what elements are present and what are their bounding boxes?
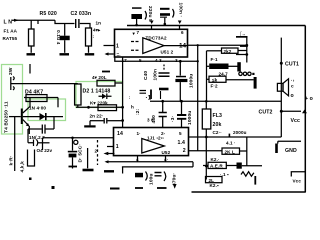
wire rail x246 [246, 137, 248, 166]
svg-text:1.4: 1.4 [178, 140, 186, 146]
transistor T4 base wire [9, 116, 21, 118]
wire rail R11 R12 [206, 51, 208, 102]
resistor RL3 top stub [205, 101, 207, 109]
node junction output relay [245, 44, 248, 47]
terminal T bar [254, 77, 257, 89]
svg-text:≤k: ≤k [212, 77, 218, 82]
relay K1 top bar [236, 36, 248, 38]
wire center rail [122, 57, 124, 128]
relay K1 right side [246, 37, 248, 63]
op-amp IC box U52 [114, 128, 189, 156]
svg-text:▪▪▪: ▪▪▪ [212, 64, 217, 69]
electrolytic CC filled plate [135, 173, 143, 178]
svg-text:TDC73A2: TDC73A2 [146, 36, 167, 41]
capacitor bar right of R11 [237, 62, 241, 71]
svg-text:450: 450 [151, 115, 157, 124]
svg-text:100n ·: 100n · [178, 3, 184, 18]
ground under C3 [60, 53, 70, 55]
capacitor shell bottom left [28, 150, 35, 167]
arrowhead output row [105, 160, 109, 163]
svg-text:U52: U52 [162, 150, 171, 155]
resistor 2k2 body [222, 48, 239, 53]
resistor B3 body [206, 177, 223, 183]
transistor T4 emitter [23, 120, 29, 127]
wire lower mid rail [189, 136, 282, 138]
green highlight box G3 (D2 1N4148) [76, 82, 123, 108]
capacitor C2 plates [76, 19, 79, 28]
diode D1 symbol [40, 113, 46, 120]
svg-text:·1: ·1 [146, 95, 152, 102]
wire R12 left [207, 78, 210, 80]
ground GND bar [275, 144, 278, 154]
wire bus below U51 [115, 57, 198, 61]
diode D2 leads [99, 95, 112, 97]
electrolytic C6 bottom bar [69, 166, 78, 168]
svg-text:2000u: 2000u [233, 130, 247, 135]
wire B2 left stub [203, 165, 208, 167]
wire B1 right [240, 150, 247, 152]
op-amp U51 plus input dashes [131, 41, 139, 43]
transistor T4 emitter tail [28, 126, 30, 134]
node junction rail B2 [205, 165, 208, 168]
svg-text:D· 5CC·: D· 5CC· [78, 144, 84, 163]
svg-text:100n: 100n [153, 69, 159, 81]
wire arrow into U51 pin 1 [106, 53, 114, 55]
transistor T4 base bar [21, 109, 23, 125]
resistor B2 body [208, 162, 226, 168]
svg-text:c: c [291, 85, 294, 90]
svg-text:F1 AA: F1 AA [4, 29, 18, 34]
resistor zigzag [241, 172, 254, 177]
arrow mark under C9 label [178, 21, 182, 25]
svg-text:k·R·: k·R· [9, 156, 15, 166]
svg-text::2:: :2: [135, 108, 141, 115]
svg-text:3: 3 [175, 58, 178, 63]
svg-text:4▾▸: 4▾▸ [93, 28, 101, 33]
arrowhead left of U52 pins [104, 152, 109, 156]
resistor R5b body [75, 84, 81, 105]
capacitor C4 right wire [38, 142, 50, 144]
resistor R1 [29, 29, 35, 46]
relay K1 bottom bar [240, 45, 248, 47]
svg-text:GND: GND [285, 148, 297, 154]
svg-text:2n 22·: 2n 22· [90, 113, 104, 118]
wire R20k right stub [115, 82, 123, 84]
node junction rail/C7 [121, 119, 124, 122]
electrolytic C6 stem top [72, 138, 74, 151]
wire C7 right [108, 120, 123, 122]
connector OOO mid 3 [248, 72, 251, 75]
capacitor C8 filled plate [131, 14, 142, 19]
node rail A junction top [197, 44, 199, 46]
svg-text:Vcc: Vcc [291, 118, 301, 124]
svg-text:1000u: 1000u [189, 74, 195, 88]
resistor RL3 body [202, 109, 211, 129]
bar under CC [135, 187, 143, 189]
wire bottom border [192, 191, 306, 193]
transistor T4 collector [23, 98, 30, 114]
op-amp U51 minus input wire [131, 49, 139, 51]
wire R1 bottom [30, 46, 32, 53]
speaker SP1 cone [283, 79, 289, 96]
wire C3 branch [64, 24, 66, 36]
wire P1 bottom [88, 46, 90, 53]
svg-text:2: 2 [183, 148, 186, 154]
wire C3 bottom [64, 40, 66, 53]
wire U51 output [164, 45, 188, 47]
wire input tick [37, 20, 39, 24]
connector dot end [252, 73, 254, 75]
wire CUT2 to Vcc [281, 110, 301, 112]
capacitor C40 stem dots [163, 65, 165, 72]
svg-text:O4 22v: O4 22v [37, 148, 53, 153]
wire CUT1 rail [280, 38, 282, 112]
wire C9 stem [164, 18, 166, 26]
svg-text:7: 7 [137, 30, 140, 35]
wire U52 output to B1 [189, 150, 222, 152]
wire ground stub left [87, 148, 89, 168]
resistor B1 body [222, 148, 240, 154]
svg-text:FL3: FL3 [213, 113, 223, 119]
resistor 2k2 wire left [207, 50, 222, 52]
op-amp U52 triangle [142, 139, 165, 154]
capacitor CA stem bottom [162, 117, 164, 128]
op-amp IC box U51 [115, 29, 188, 57]
bar small under blob [110, 188, 120, 190]
wire CUT2 down [280, 111, 282, 137]
svg-text:20k: 20k [213, 122, 222, 128]
svg-text:2k2: 2k2 [224, 49, 232, 54]
transistor T4 connector curls [13, 77, 14, 91]
wire blob right [242, 165, 262, 167]
svg-text:1: 1 [116, 144, 119, 150]
svg-text:CUT1: CUT1 [285, 61, 299, 67]
tick below C40 left [150, 90, 152, 100]
electrolytic C41 filled plate [175, 79, 187, 82]
wire mid rail [150, 100, 281, 102]
electrolytic C41 stem top [179, 61, 181, 75]
wire right rail A [197, 45, 199, 151]
wire Vcc bottom right [291, 172, 306, 177]
ground bar under C40 [159, 88, 169, 91]
svg-text:▾: ▾ [132, 31, 136, 36]
capacitor CD plates [155, 173, 162, 176]
svg-text:F·1: F·1 [211, 57, 219, 62]
svg-text:2K L: 2K L [225, 150, 235, 155]
resistor R4 body [26, 95, 47, 102]
resistor R11 body (filled) [209, 64, 228, 70]
connector OOO mid 2 [243, 72, 246, 75]
wire AC input [12, 19, 55, 21]
pin stub U52 bottom a [137, 156, 139, 162]
wire step down [55, 20, 75, 23]
svg-text:0.1u 4: 0.1u 4 [55, 30, 61, 45]
speaker SP1 box [277, 83, 283, 91]
tick below C40 right [160, 91, 162, 99]
wire R11 right [229, 65, 238, 67]
electrolytic C6 stem bottom [72, 157, 74, 168]
node CUT2 junction [280, 110, 283, 113]
node junction left R6 [87, 106, 90, 109]
node C8 junction [135, 24, 138, 27]
svg-text:220u 5: 220u 5 [147, 6, 153, 22]
wire collector feed [11, 83, 78, 85]
capacitor C3 filled plate [60, 36, 70, 41]
resistor RL3 bottom stub [205, 129, 207, 137]
op-amp U52 input dash [107, 146, 113, 148]
svg-text:1·: 1· [137, 131, 141, 136]
ground dash left of U51 [102, 71, 110, 73]
green highlight box G2 (D1 1N4007) [28, 99, 66, 121]
wire lower left corner [42, 138, 44, 150]
svg-text:K2.▪: K2.▪ [210, 183, 219, 188]
capacitor C5 plates [42, 125, 45, 134]
arrow mark under C8 label [150, 21, 154, 25]
node junction capB [180, 100, 183, 103]
ground bar 2 [104, 170, 114, 172]
svg-text:D2 1 14148: D2 1 14148 [83, 89, 111, 95]
svg-text:U51 2: U51 2 [161, 50, 174, 55]
svg-text:1n: 1n [96, 21, 102, 26]
svg-text:·3·: ·3· [170, 116, 176, 122]
svg-text:5: 5 [179, 131, 182, 136]
pin tick rail to box b [179, 26, 181, 30]
wire D1 right corner [53, 117, 55, 129]
bar under CD [157, 187, 167, 189]
junction tick 1000u [228, 134, 230, 137]
electrolytic C41 stem bottom [179, 82, 181, 101]
svg-text:1N 4·00: 1N 4·00 [29, 106, 46, 111]
node dot bottom left [29, 178, 32, 181]
ground under R1 [27, 53, 36, 55]
svg-text:2W: 2W [8, 67, 14, 75]
electrolytic C6 plate [68, 151, 77, 153]
wire tick cap [29, 64, 31, 74]
node junction electrolytic [71, 137, 74, 140]
diode D1 cathode bar [45, 113, 47, 120]
svg-text:100u: 100u [149, 173, 155, 185]
svg-text:RAT55: RAT55 [3, 36, 18, 41]
svg-text:K2.·: K2.· [211, 157, 220, 162]
electrolytic C41 plate [176, 76, 186, 78]
wire C2 to corner [80, 24, 90, 29]
ground under P1 [85, 53, 94, 55]
capacitor C4 left wire [28, 129, 33, 143]
svg-text:4.1 ·: 4.1 · [226, 141, 236, 146]
transistor T4 emitter arrowhead [26, 123, 30, 127]
node C9 junction [164, 23, 167, 26]
electrolytic C6 filled plate [69, 154, 77, 158]
diode D2 symbol [102, 94, 107, 100]
capacitor C7 plates [104, 118, 107, 124]
resistor R20k body [97, 80, 115, 86]
svg-text:C2 033n: C2 033n [71, 11, 92, 17]
svg-text:C2··: C2·· [213, 130, 222, 135]
svg-text:4,k,k: 4,k,k [20, 161, 26, 173]
node junction relay tick [245, 53, 248, 56]
capacitor C9 plate 3 [160, 17, 167, 18]
node CUT1 junction [280, 62, 283, 65]
arrow mark under CD [173, 184, 177, 189]
wire B2 right [226, 165, 236, 167]
tick vertical right cluster [254, 176, 256, 185]
diode D2 cathode bar [106, 94, 108, 100]
transistor T4 connector bar [10, 77, 12, 90]
green highlight box G1 (T4 BD250) [2, 65, 23, 135]
resistor R12 body [209, 76, 226, 82]
capacitor CB stem bottom [181, 120, 183, 128]
capacitor C5 right wire [46, 128, 55, 130]
relay K1 tick [236, 54, 247, 56]
wire right border [304, 26, 306, 193]
wire rail B lower [205, 137, 207, 180]
pin stub U52 bottom b [165, 156, 167, 162]
wire collector row [24, 97, 58, 99]
capacitor C9 plate 2 [160, 13, 170, 16]
svg-text:6: 6 [181, 30, 184, 35]
wire second bottom row [122, 166, 193, 168]
svg-text:C40: C40 [143, 71, 149, 80]
op-amp U51 triangle [143, 38, 164, 54]
equals marks below wireA [140, 91, 147, 94]
svg-text:1: 1 [116, 44, 119, 50]
wire end vertical join [192, 162, 194, 167]
arrow wire left of U52 pins [107, 153, 115, 155]
capacitor C9 plate 1 [160, 8, 170, 10]
svg-text:4▾ 20L: 4▾ 20L [92, 75, 107, 80]
node junction FL3 top [205, 100, 208, 103]
capacitor CD curved plate [164, 172, 166, 182]
connector OOO mid [239, 72, 242, 75]
capacitor CB stem [181, 101, 183, 114]
node junction lower mid [205, 136, 208, 139]
svg-text:1000u: 1000u [187, 111, 193, 125]
wire base feed vertical [14, 117, 16, 171]
svg-text:F·2: F·2 [211, 84, 219, 89]
wire GND [278, 141, 301, 143]
svg-text:o: o [291, 93, 294, 99]
capacitor CB plates [177, 115, 186, 119]
wire R4 right corner down [57, 98, 59, 108]
wire R11 left [207, 65, 210, 67]
wire top supply rail [127, 25, 305, 27]
wire into U51 pin 1 [104, 45, 115, 47]
resistor 2k2 wire right [238, 50, 247, 52]
node junction wire A electrolytic [179, 60, 182, 63]
wire R5b bottom [77, 105, 79, 107]
svg-text:+ o: + o [305, 96, 313, 102]
capacitor C8 top plate [132, 7, 142, 9]
capacitor blob right cluster [237, 163, 242, 169]
wire C7 left [90, 120, 104, 122]
wire U52 output arrow row [106, 161, 193, 163]
wire R6 row [76, 106, 123, 108]
Vcc arrow top [302, 110, 307, 114]
pin tick rail to box a [151, 26, 153, 30]
resistor R6 body [98, 105, 117, 111]
svg-text:Vcc: Vcc [293, 179, 302, 184]
svg-text:4 3: 4 3 [155, 58, 162, 63]
wire R12 right [226, 79, 254, 81]
dashed column [97, 140, 99, 165]
svg-text:A.E.R: A.E.R [210, 164, 223, 169]
input arrow tick [14, 19, 19, 22]
wire R1 top [30, 20, 32, 29]
capacitor CA plates [159, 113, 167, 117]
capacitor C4 plates [34, 140, 38, 147]
capacitor C40 plates [159, 73, 170, 76]
capacitor C9 curl [173, 9, 174, 18]
potentiometer P1 [86, 28, 92, 46]
svg-text:h: h [131, 105, 134, 110]
node junction capA [161, 100, 164, 103]
svg-text:L N: L N [4, 20, 13, 26]
wire U51 output external [188, 44, 247, 46]
wire corner bottom center [122, 167, 124, 174]
diode D1 row wire [23, 116, 63, 118]
ground under C7 [89, 121, 91, 126]
svg-text:CUT2: CUT2 [259, 110, 273, 116]
wire C8 stem [136, 19, 138, 26]
electrolytic CC curved plate [146, 172, 148, 181]
svg-text:=.: =. [117, 52, 121, 57]
ground bar left [83, 169, 94, 172]
svg-text:·›: ·› [291, 79, 295, 84]
svg-text:R5 020: R5 020 [40, 11, 57, 17]
capacitor CA stem [162, 101, 164, 112]
node junction rail/R6 [121, 106, 124, 109]
svg-text:5: 5 [139, 58, 142, 63]
svg-text:14: 14 [117, 131, 123, 137]
node dot bottom left b [52, 186, 55, 189]
capacitor C5 left wire [28, 128, 42, 130]
svg-text:1J1 ›2››: 1J1 ›2›› [147, 135, 164, 140]
svg-text:T4 BD250 ·11: T4 BD250 ·11 [4, 101, 10, 133]
connector circle 8 [74, 140, 78, 144]
wire lower left feed [43, 137, 115, 139]
arrowhead at U51 pin 1 [105, 52, 109, 55]
ground bar C7 [84, 125, 95, 127]
node rail A junction wireA [197, 60, 199, 62]
capacitor C8 curl [145, 11, 146, 20]
